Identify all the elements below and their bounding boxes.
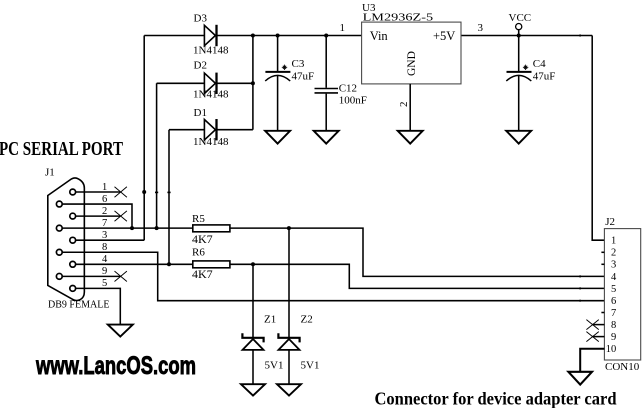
wire: R6 output to J2 pin 5 [230, 264, 604, 288]
svg-text:J2: J2 [605, 216, 615, 228]
svg-text:8: 8 [611, 320, 616, 331]
connector J2 CON10 [604, 216, 640, 373]
tick artifact [579, 275, 581, 277]
svg-text:D1: D1 [194, 107, 207, 119]
svg-text:4: 4 [102, 254, 108, 265]
junction dot bus/rail [251, 34, 255, 38]
svg-text:DB9 FEMALE: DB9 FEMALE [48, 299, 110, 311]
tick artifact [155, 192, 158, 194]
svg-text:VCC: VCC [509, 12, 532, 24]
ground under C4 [506, 131, 531, 144]
ground under Z2 [277, 384, 301, 395]
svg-text:6: 6 [611, 296, 616, 307]
ground at J1 pin 5 [108, 325, 133, 337]
pin 5 wire to ground [70, 278, 121, 324]
svg-text:5: 5 [102, 278, 107, 289]
wire: vertical down to J2 pin 1 [592, 36, 604, 241]
node VCC [509, 12, 532, 36]
pin 9 [56, 266, 127, 281]
resistor R5 4K7 [192, 213, 230, 246]
svg-text:C3: C3 [292, 58, 305, 70]
J2 pin numbers [606, 236, 617, 356]
resistor R6 4K7 [192, 247, 230, 282]
diode D1 [169, 107, 253, 148]
tick artifact [579, 287, 581, 289]
svg-text:5V1: 5V1 [301, 360, 320, 372]
svg-text:47uF: 47uF [292, 71, 315, 83]
J2 pin 3 stub [601, 263, 604, 265]
wire: main +V rail from D3 cathode to U3 Vin [217, 35, 362, 37]
pin 4 wire to R6 [70, 254, 193, 267]
wire: D3 anode vertical down to J1 pin 3 row [143, 36, 145, 241]
J2 pin 9 stub with X [586, 332, 604, 342]
svg-text:www.LancOS.com: www.LancOS.com [35, 352, 196, 380]
svg-text:4: 4 [611, 272, 617, 283]
svg-text:3: 3 [478, 22, 484, 34]
tick artifact [167, 192, 170, 194]
svg-text:R5: R5 [192, 213, 205, 225]
connector J1 DB9 [45, 167, 110, 311]
junction dot R5/Z2 [287, 226, 291, 230]
svg-text:C4: C4 [533, 58, 546, 70]
pin 3 wire to D3 vertical [70, 230, 144, 243]
svg-text:R6: R6 [192, 247, 205, 259]
svg-text:PC SERIAL PORT: PC SERIAL PORT [0, 139, 123, 160]
wire: J2 pin 10 to ground [580, 349, 604, 372]
ground under Z1 [241, 384, 265, 395]
svg-text:3: 3 [102, 230, 107, 241]
svg-text:1N4148: 1N4148 [193, 136, 229, 148]
svg-text:5: 5 [611, 284, 616, 295]
junction dot C12/rail [324, 34, 328, 38]
svg-text:+5V: +5V [433, 29, 455, 43]
pin 2 [70, 206, 127, 221]
pin 1 [70, 182, 127, 197]
svg-text:1: 1 [340, 22, 346, 34]
ground at J2 pin 10 [568, 372, 592, 385]
svg-text:D3: D3 [194, 13, 208, 25]
zener Z1 5V1 [242, 264, 283, 384]
svg-text:1N4148: 1N4148 [193, 89, 229, 101]
svg-text:C12: C12 [339, 83, 357, 95]
svg-text:D2: D2 [194, 60, 207, 72]
capacitor C12 [315, 36, 367, 131]
svg-text:10: 10 [606, 344, 617, 355]
svg-text:100nF: 100nF [339, 94, 367, 106]
svg-text:1: 1 [611, 236, 616, 247]
svg-text:9: 9 [102, 266, 107, 277]
svg-text:CON10: CON10 [605, 361, 640, 373]
junction dot artifact on D3 vertical at pin1 row [142, 190, 146, 194]
svg-text:2: 2 [102, 206, 107, 217]
ground under U3 [398, 131, 423, 144]
diode D3 [144, 13, 229, 57]
svg-text:3: 3 [611, 260, 616, 271]
J2 pin 8 stub with X [586, 320, 604, 330]
svg-text:J1: J1 [45, 167, 55, 179]
junction dot bus/D2 [251, 81, 255, 85]
svg-text:5V1: 5V1 [265, 360, 284, 372]
tick artifact on rail [579, 34, 581, 36]
wire: U3 GND pin 2 [409, 84, 411, 131]
junction dot C3/rail [276, 34, 280, 38]
svg-text:2: 2 [398, 102, 410, 108]
svg-text:LM2936Z-5: LM2936Z-5 [363, 12, 434, 24]
wire: rail from U3 +5V output to right corner [461, 35, 592, 37]
pin 7 wire to R5 [56, 218, 193, 231]
svg-text:2: 2 [611, 248, 616, 259]
svg-text:Z1: Z1 [264, 314, 276, 326]
capacitor C4 [506, 36, 555, 131]
svg-text:Z2: Z2 [301, 314, 313, 326]
svg-text:4K7: 4K7 [192, 232, 213, 246]
diode D2 [157, 60, 253, 101]
svg-text:7: 7 [611, 308, 616, 319]
svg-text:Vin: Vin [370, 29, 389, 43]
wire: diode output bus vertical [252, 36, 254, 130]
J2 pin 7 stub [601, 312, 604, 314]
wire: D2 anode vertical down to J1 pin 7 row [156, 83, 158, 228]
svg-text:4K7: 4K7 [192, 267, 213, 281]
junction dot R6/Z1 [251, 262, 255, 266]
wire: D1 anode vertical down to J1 pin 4 row [168, 130, 170, 265]
svg-text:1: 1 [102, 182, 107, 193]
pin 8 wire, route to J2 pin 6 [56, 242, 604, 302]
op-amp U3 regulator LM2936Z-5 [340, 2, 484, 107]
junction dot VCC/rail [517, 34, 521, 38]
zener Z2 5V1 [278, 228, 319, 384]
ground under C12 [314, 131, 339, 144]
ground under C3 [265, 131, 290, 144]
capacitor C3 [265, 36, 314, 131]
svg-text:GND: GND [406, 51, 418, 76]
svg-text:8: 8 [102, 242, 107, 253]
svg-text:7: 7 [102, 218, 107, 229]
pin 6 [56, 194, 134, 230]
svg-text:Connector for device adapter c: Connector for device adapter card [375, 389, 617, 408]
svg-text:6: 6 [102, 194, 107, 205]
wire: R5 output to J2 pin 4 [230, 228, 604, 276]
svg-text:1N4148: 1N4148 [193, 45, 229, 57]
J2 pin 2 stub [601, 251, 604, 253]
svg-text:47uF: 47uF [533, 71, 556, 83]
svg-text:9: 9 [611, 332, 616, 343]
